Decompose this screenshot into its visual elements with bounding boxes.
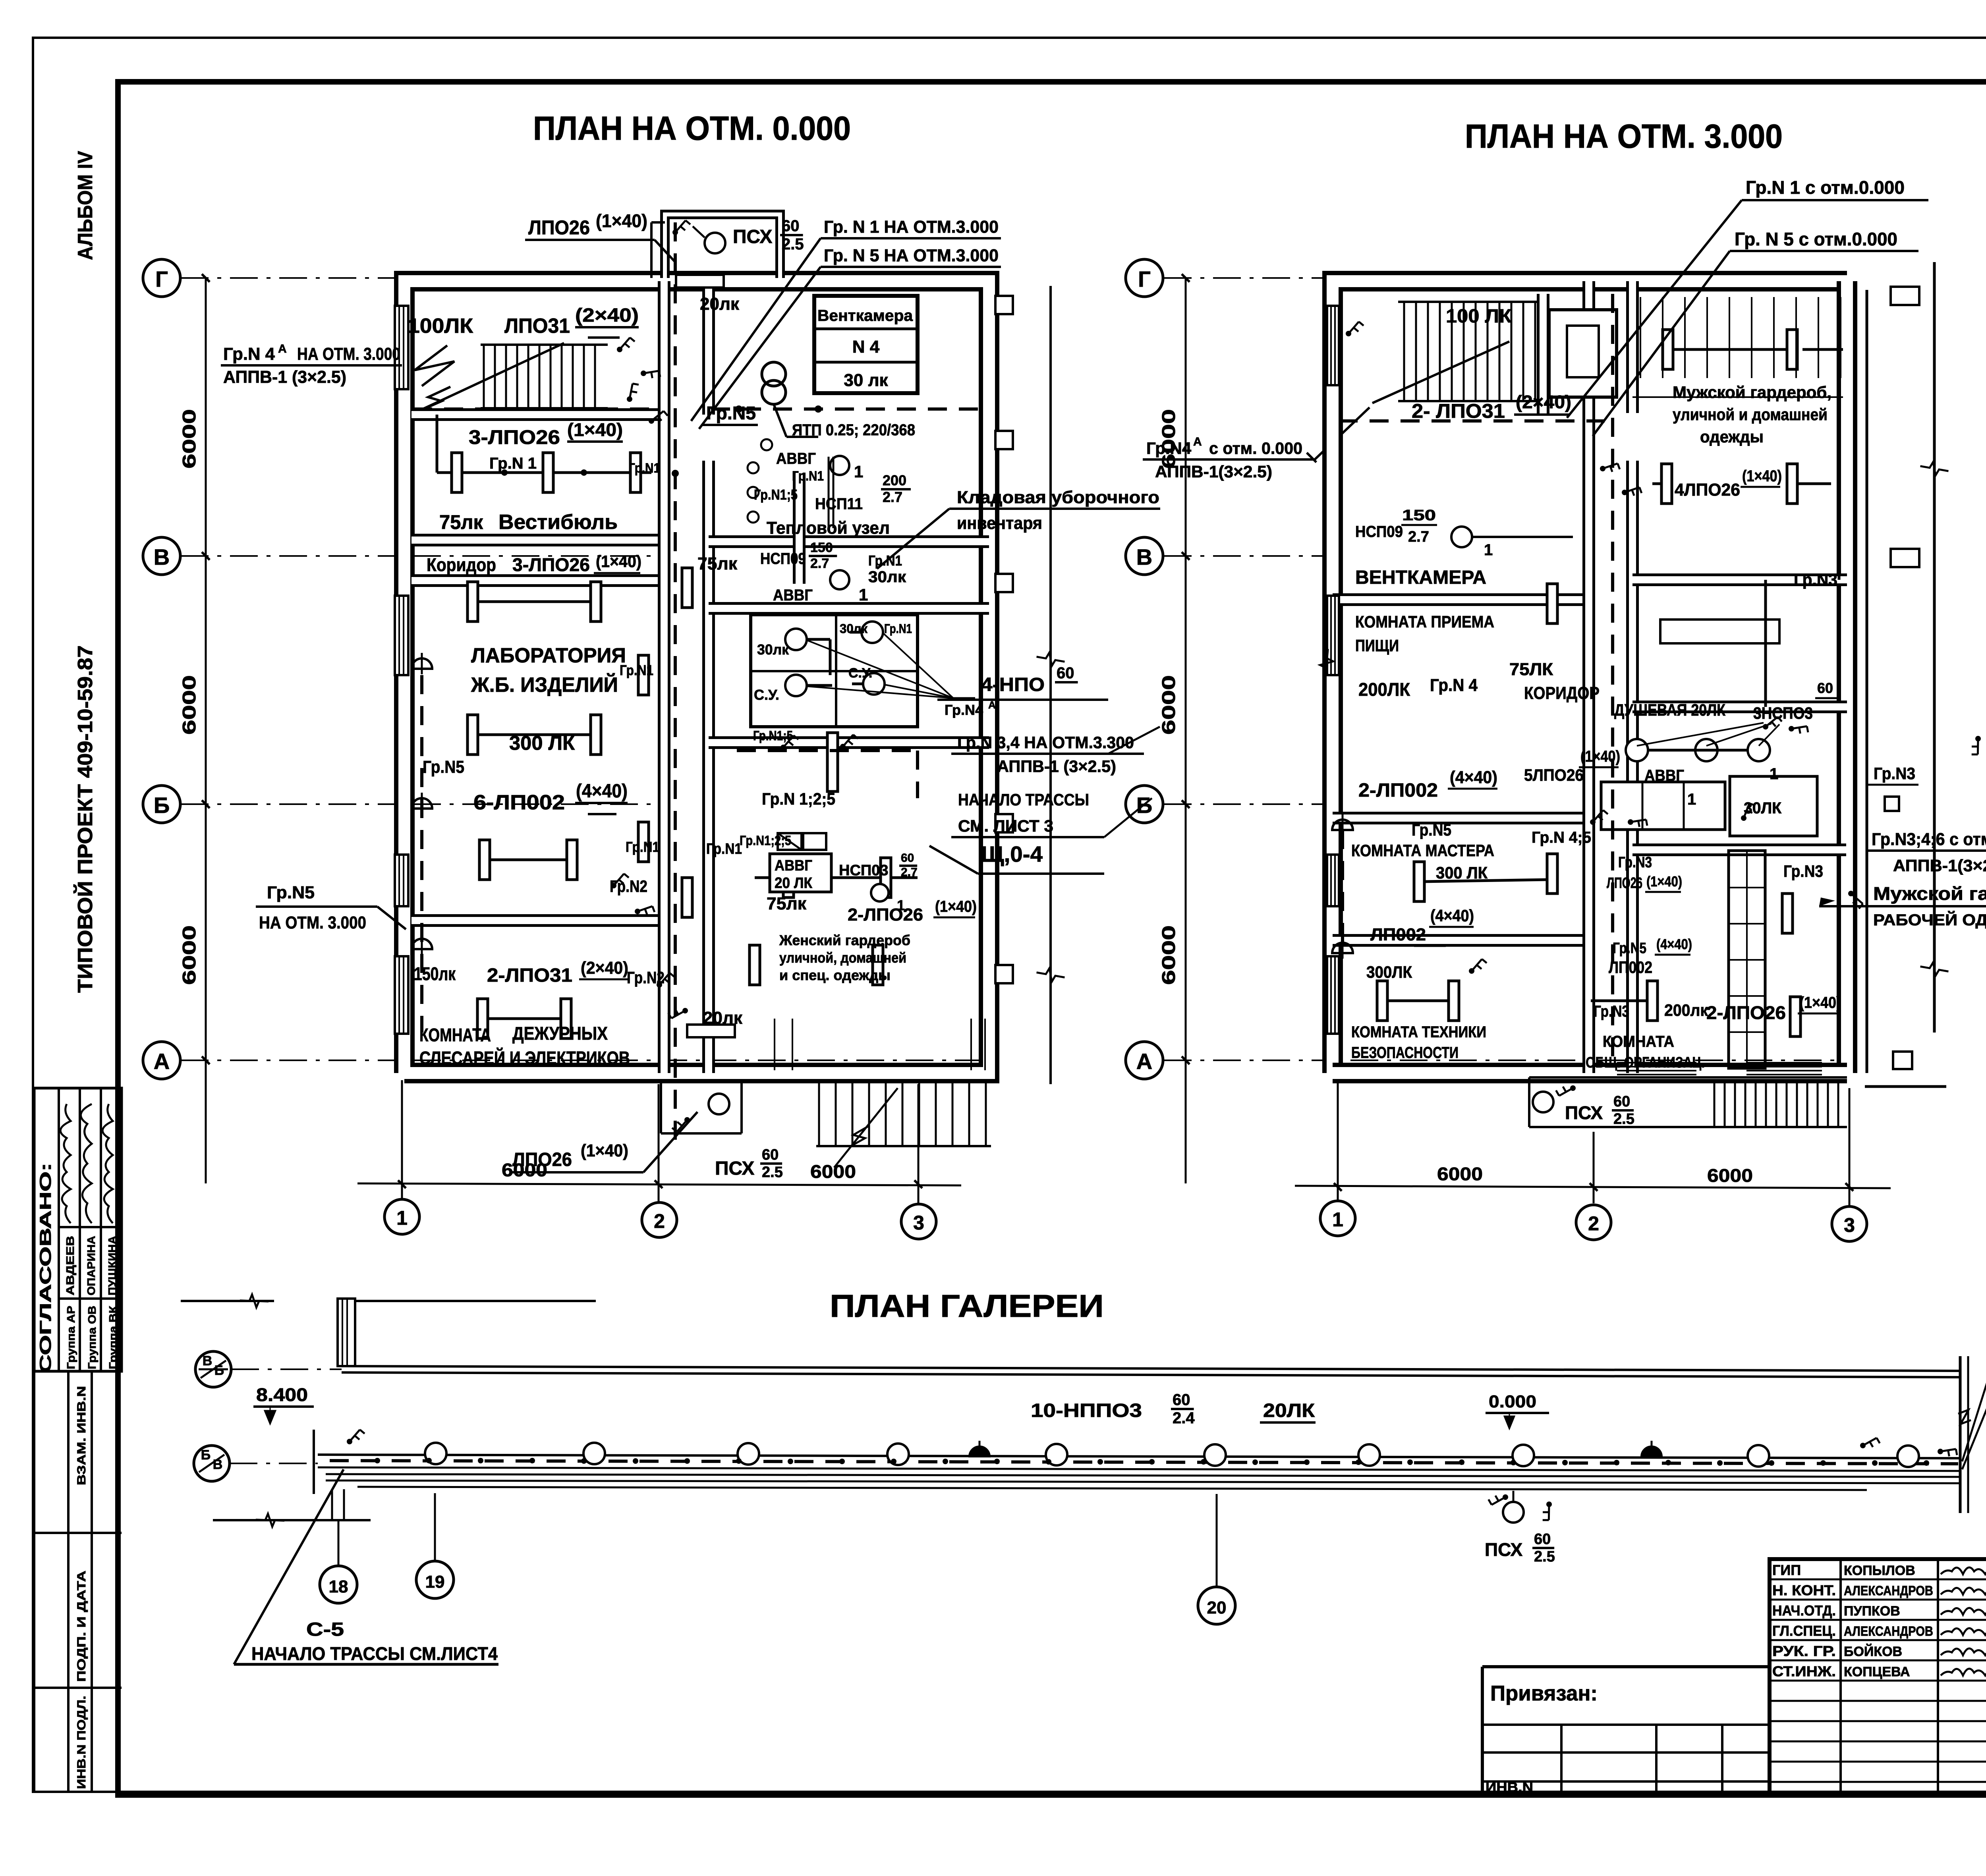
svg-text:Г: Г <box>155 266 168 291</box>
left column: sign-off table <box>34 1088 122 1371</box>
left plan: yatp transformer <box>762 362 786 386</box>
svg-text:19: 19 <box>425 1572 445 1592</box>
right plan: A axis through building <box>1350 1060 1843 1061</box>
svg-text:ГЛ.СПЕЦ.: ГЛ.СПЕЦ. <box>1772 1623 1836 1639</box>
svg-text:(4×40): (4×40) <box>576 781 628 802</box>
svg-text:НАЧАЛО ТРАССЫ: НАЧАЛО ТРАССЫ <box>958 790 1089 809</box>
svg-text:АВДЕЕВ: АВДЕЕВ <box>64 1236 76 1295</box>
svg-text:В: В <box>203 1353 213 1368</box>
svg-text:Гр.N3: Гр.N3 <box>1794 570 1837 589</box>
svg-text:3НСПО3: 3НСПО3 <box>1753 704 1813 722</box>
svg-text:БЕЗОПАСНОСТИ: БЕЗОПАСНОСТИ <box>1351 1044 1459 1062</box>
svg-text:3-ЛПО26: 3-ЛПО26 <box>512 554 590 575</box>
gallery lamps <box>425 1443 446 1464</box>
left plan: neighbor building wall <box>1049 286 1052 1084</box>
svg-text:Гр.N3: Гр.N3 <box>1783 862 1823 880</box>
gallery left structure <box>181 1300 274 1302</box>
left plan: east wall pilasters <box>995 296 1013 314</box>
svg-text:2.5: 2.5 <box>782 235 804 253</box>
svg-text:2.5: 2.5 <box>1613 1111 1634 1127</box>
svg-text:2-ЛПО31: 2-ЛПО31 <box>487 965 572 986</box>
right plan: neighbor building wall <box>1933 262 1936 1033</box>
svg-text:1: 1 <box>859 585 868 604</box>
svg-text:А: А <box>988 699 996 711</box>
svg-text:КОМНАТА: КОМНАТА <box>1603 1033 1674 1050</box>
gallery dots on wire <box>375 1458 380 1463</box>
svg-text:4-НПО: 4-НПО <box>981 674 1045 695</box>
svg-text:ЛП002: ЛП002 <box>1609 958 1652 977</box>
svg-text:60: 60 <box>901 851 914 865</box>
svg-text:20лк: 20лк <box>703 1008 743 1028</box>
gallery axis lines <box>231 1368 342 1370</box>
left plan: west wall pilasters <box>395 306 408 389</box>
right plan callouts right <box>1885 797 1899 811</box>
svg-text:(4×40): (4×40) <box>1430 906 1474 925</box>
svg-text:СМ. ЛИСТ 3: СМ. ЛИСТ 3 <box>958 816 1053 835</box>
svg-text:Гр.N3;4;6 с отм.0.000: Гр.N3;4;6 с отм.0.000 <box>1872 830 1986 849</box>
svg-text:(1×40): (1×40) <box>581 1141 628 1160</box>
svg-text:Гр.N 1 с отм.0.000: Гр.N 1 с отм.0.000 <box>1746 177 1905 198</box>
svg-text:Гр. N 1 НА ОТМ.3.000: Гр. N 1 НА ОТМ.3.000 <box>824 217 999 237</box>
right plan bottom porch <box>1529 1076 1847 1079</box>
svg-text:А: А <box>154 1049 170 1074</box>
svg-text:НА ОТМ. 3.000: НА ОТМ. 3.000 <box>259 913 366 932</box>
svg-text:КОМНАТА: КОМНАТА <box>419 1025 491 1045</box>
svg-text:Гр.N 4;5: Гр.N 4;5 <box>1532 829 1591 846</box>
svg-text:одежды: одежды <box>1700 427 1764 446</box>
svg-text:300 ЛК: 300 ЛК <box>1436 863 1488 882</box>
svg-text:инвентаря: инвентаря <box>957 513 1042 533</box>
svg-text:Гр.N1: Гр.N1 <box>706 841 742 857</box>
svg-text:Г: Г <box>1138 266 1151 291</box>
right plan: vertical dim line <box>1185 278 1187 1183</box>
svg-text:Гр.N 4: Гр.N 4 <box>223 344 275 364</box>
right plan: neighbor pilasters <box>1891 287 1919 305</box>
svg-text:6000: 6000 <box>1158 925 1179 985</box>
svg-text:Венткамера: Венткамера <box>817 307 913 324</box>
svg-text:ПИЩИ: ПИЩИ <box>1355 636 1399 655</box>
svg-text:6000: 6000 <box>179 925 199 985</box>
svg-text:1: 1 <box>1332 1208 1343 1231</box>
svg-text:Группа АР: Группа АР <box>65 1306 77 1369</box>
left plan: stairs <box>483 345 485 408</box>
svg-text:(1×40): (1×40) <box>935 898 977 915</box>
left plan: corridor fixtures <box>638 655 649 695</box>
svg-text:Гр.N1;5: Гр.N1;5 <box>753 728 793 743</box>
gallery bottom lamp <box>1503 1502 1524 1523</box>
svg-text:30лк: 30лк <box>840 621 868 636</box>
svg-text:300 ЛК: 300 ЛК <box>509 732 575 754</box>
left plan: interior walls right half <box>709 535 989 548</box>
svg-text:(1×40): (1×40) <box>1742 467 1782 485</box>
svg-text:150: 150 <box>810 540 833 555</box>
svg-text:3: 3 <box>1844 1214 1855 1236</box>
svg-text:ПЛАН НА ОТМ. 0.000: ПЛАН НА ОТМ. 0.000 <box>533 110 851 147</box>
svg-text:(2×40): (2×40) <box>575 305 639 326</box>
svg-text:Гр.N5: Гр.N5 <box>423 757 464 777</box>
svg-text:КОПЦЕВА: КОПЦЕВА <box>1844 1664 1910 1679</box>
svg-text:200ЛК: 200ЛК <box>1358 679 1410 700</box>
svg-text:ТИПОВОЙ ПРОЕКТ 409-10-59.87: ТИПОВОЙ ПРОЕКТ 409-10-59.87 <box>73 645 97 993</box>
svg-text:2.5: 2.5 <box>1534 1548 1555 1565</box>
left column: inv boxes <box>34 1370 122 1373</box>
left plan: interior walls left half <box>411 408 663 421</box>
left plan: bottom porch lamp <box>709 1094 729 1114</box>
svg-text:СТ.ИНЖ.: СТ.ИНЖ. <box>1772 1663 1836 1679</box>
svg-text:(4×40): (4×40) <box>1450 768 1497 787</box>
svg-text:Мужской гардероб: Мужской гардероб <box>1873 883 1986 904</box>
left plan: wall right of corridor <box>793 473 806 584</box>
svg-text:А: А <box>278 342 287 355</box>
svg-text:2- ЛПО31: 2- ЛПО31 <box>1412 400 1505 422</box>
svg-text:2.7: 2.7 <box>1408 529 1429 545</box>
left plan: bottom porch lines <box>660 1080 662 1133</box>
svg-text:200: 200 <box>883 472 906 488</box>
svg-text:20лк: 20лк <box>700 294 740 314</box>
svg-text:ЛАБОРАТОРИЯ: ЛАБОРАТОРИЯ <box>471 644 626 667</box>
svg-text:0.000: 0.000 <box>1489 1392 1536 1411</box>
svg-text:ОПАРИНА: ОПАРИНА <box>85 1236 97 1295</box>
svg-text:1: 1 <box>1687 791 1696 808</box>
left plan: riser dashed line <box>674 222 677 1148</box>
svg-text:Гр. N 5 НА ОТМ.3.000: Гр. N 5 НА ОТМ.3.000 <box>824 246 999 265</box>
frame bottom segment <box>118 1792 1986 1798</box>
svg-text:А: А <box>1193 435 1202 448</box>
left plan: central corridor walls <box>658 281 670 1073</box>
svg-text:ВЕНТКАМЕРА: ВЕНТКАМЕРА <box>1355 567 1486 588</box>
left plan: gdrb fixtures <box>755 876 918 879</box>
svg-text:Гр.N5: Гр.N5 <box>1613 940 1646 957</box>
svg-text:Гр.N4: Гр.N4 <box>945 702 983 718</box>
svg-text:(1×40): (1×40) <box>596 552 641 571</box>
svg-text:Гр.N1: Гр.N1 <box>628 461 660 476</box>
svg-text:2.7: 2.7 <box>883 489 902 505</box>
svg-text:60: 60 <box>1173 1391 1190 1409</box>
right plan: wardrobe locker grid <box>1640 297 1641 378</box>
svg-text:С-5: С-5 <box>306 1619 344 1640</box>
svg-text:В: В <box>1136 544 1152 569</box>
right plan hatch bands in south wall <box>1617 1062 1696 1063</box>
left plan: gdrb locker verticals <box>774 1019 775 1070</box>
svg-text:РАБОЧЕЙ ОДЕЖДЫ: РАБОЧЕЙ ОДЕЖДЫ <box>1873 911 1986 929</box>
left plan: bottom dim line and axis circles 1 2 3 <box>401 1080 403 1199</box>
svg-text:Гр.N1: Гр.N1 <box>884 621 912 636</box>
svg-text:АЛЕКСАНДРОВ: АЛЕКСАНДРОВ <box>1844 1624 1933 1639</box>
svg-text:АЛЕКСАНДРОВ: АЛЕКСАНДРОВ <box>1844 1583 1933 1598</box>
svg-text:АВВГ: АВВГ <box>776 450 816 467</box>
svg-text:КОМНАТА ТЕХНИКИ: КОМНАТА ТЕХНИКИ <box>1351 1023 1486 1041</box>
svg-text:2-ЛПО26: 2-ЛПО26 <box>848 905 923 924</box>
right plan: riser dashed <box>1611 294 1614 1068</box>
svg-text:20ЛК: 20ЛК <box>1263 1400 1315 1421</box>
svg-text:Привязан:: Привязан: <box>1490 1681 1598 1705</box>
svg-text:Кладовая уборочного: Кладовая уборочного <box>957 488 1159 507</box>
svg-text:N 4: N 4 <box>852 337 880 357</box>
left plan: right half fixtures <box>830 456 849 475</box>
svg-text:2.7: 2.7 <box>810 556 829 571</box>
right plan: axis row lines <box>1164 277 1327 279</box>
right plan: top-left stairs <box>1403 302 1405 401</box>
svg-text:ПЛАН ГАЛЕРЕИ: ПЛАН ГАЛЕРЕИ <box>830 1288 1104 1324</box>
svg-text:Гр.N1: Гр.N1 <box>620 662 653 678</box>
svg-text:ДЕЖУРНЫХ: ДЕЖУРНЫХ <box>512 1023 608 1044</box>
svg-text:Коридор: Коридор <box>427 554 496 575</box>
svg-text:С.У.: С.У. <box>848 666 872 681</box>
svg-text:(4×40): (4×40) <box>1656 936 1692 952</box>
gallery top chord <box>342 1366 1960 1371</box>
svg-text:60: 60 <box>762 1146 779 1163</box>
left plan: vertical dim line <box>205 278 207 1183</box>
svg-text:АВВГ: АВВГ <box>775 857 812 874</box>
svg-text:ПОДП. И ДАТА: ПОДП. И ДАТА <box>75 1571 88 1682</box>
svg-text:Гр.N1: Гр.N1 <box>626 839 659 855</box>
svg-text:150лк: 150лк <box>414 963 456 984</box>
svg-text:Гр.N 3,4 НА ОТМ.3.300: Гр.N 3,4 НА ОТМ.3.300 <box>957 733 1134 752</box>
gallery left column <box>338 1299 355 1366</box>
svg-text:Гр.N5: Гр.N5 <box>1412 820 1451 839</box>
svg-text:(1×40): (1×40) <box>1799 994 1841 1011</box>
svg-text:Б: Б <box>214 1363 224 1378</box>
left plan: porch lamp <box>705 233 725 253</box>
svg-text:АППВ-1(3×2.5): АППВ-1(3×2.5) <box>1893 856 1986 875</box>
svg-text:Гр. N 5 с отм.0.000: Гр. N 5 с отм.0.000 <box>1735 229 1897 249</box>
svg-text:Н. КОНТ.: Н. КОНТ. <box>1772 1582 1836 1598</box>
left plan: axis row lines <box>181 277 397 279</box>
left plan: gr4a dashed line <box>413 407 659 411</box>
svg-text:НСП03: НСП03 <box>839 862 888 879</box>
svg-text:6-ЛП002: 6-ЛП002 <box>473 791 565 814</box>
svg-text:НА ОТМ. 3.000: НА ОТМ. 3.000 <box>297 344 400 364</box>
left plan: ventkamera box <box>814 296 918 393</box>
svg-text:ЯТП 0.25; 220/368: ЯТП 0.25; 220/368 <box>792 421 915 439</box>
svg-text:НАЧАЛО ТРАССЫ СМ.ЛИСТ4: НАЧАЛО ТРАССЫ СМ.ЛИСТ4 <box>251 1643 498 1664</box>
svg-text:ЛПО31: ЛПО31 <box>504 315 570 338</box>
title block: privyazan box <box>1482 1665 1770 1668</box>
svg-text:Вестибюль: Вестибюль <box>498 511 618 534</box>
svg-text:1: 1 <box>396 1207 408 1229</box>
svg-text:В: В <box>154 544 170 569</box>
svg-text:Группа ВК: Группа ВК <box>107 1305 119 1369</box>
svg-text:(1×40): (1×40) <box>1580 748 1620 765</box>
svg-text:Женский гардероб: Женский гардероб <box>779 932 910 948</box>
svg-text:Б: Б <box>154 793 170 818</box>
svg-text:Ж.Б. ИЗДЕЛИЙ: Ж.Б. ИЗДЕЛИЙ <box>471 673 618 697</box>
left plan: group wires left half <box>437 471 651 474</box>
svg-text:6000: 6000 <box>1158 675 1179 735</box>
svg-text:(2×40): (2×40) <box>581 958 628 978</box>
svg-text:СОГЛАСОВАНО:: СОГЛАСОВАНО: <box>37 1163 54 1373</box>
right plan: dushevaya boxes <box>1601 782 1725 830</box>
gallery switches <box>347 1430 365 1444</box>
gallery axis circles <box>195 1351 231 1387</box>
svg-text:АВВГ: АВВГ <box>773 587 813 604</box>
svg-text:75лк: 75лк <box>697 554 738 573</box>
svg-text:ЛПО26: ЛПО26 <box>528 216 590 239</box>
svg-text:Б: Б <box>1136 793 1152 818</box>
right plan: exterior walls <box>1333 281 1847 1073</box>
svg-text:150: 150 <box>1402 507 1436 524</box>
svg-text:АППВ-1 (3×2.5): АППВ-1 (3×2.5) <box>997 757 1116 776</box>
svg-text:АЛЬБОМ IV: АЛЬБОМ IV <box>74 151 97 260</box>
svg-text:АППВ-1 (3×2.5): АППВ-1 (3×2.5) <box>223 367 346 387</box>
svg-text:60: 60 <box>782 217 800 235</box>
gallery right end wall <box>1959 1356 1962 1513</box>
svg-text:уличной, домашней: уличной, домашней <box>779 950 906 966</box>
left plan: corridor tall bar <box>827 733 838 791</box>
svg-text:Гр.N2: Гр.N2 <box>610 877 647 896</box>
svg-text:ПУПКОВ: ПУПКОВ <box>1844 1604 1900 1619</box>
svg-text:Группа ОВ: Группа ОВ <box>86 1306 98 1369</box>
svg-text:ПЛАН НА ОТМ. 3.000: ПЛАН НА ОТМ. 3.000 <box>1465 118 1783 155</box>
svg-text:Гр.N5: Гр.N5 <box>706 403 756 423</box>
svg-text:2.4: 2.4 <box>1173 1409 1195 1427</box>
svg-text:(1×40): (1×40) <box>1646 873 1682 890</box>
svg-text:(1×40): (1×40) <box>596 210 647 231</box>
right plan: interior walls <box>1333 593 1589 606</box>
svg-text:ИНВ.N ПОДЛ.: ИНВ.N ПОДЛ. <box>75 1696 88 1789</box>
svg-text:Щ,0-4: Щ,0-4 <box>981 841 1043 867</box>
svg-text:300ЛК: 300ЛК <box>1366 963 1412 981</box>
svg-text:Гр.N1;2;5: Гр.N1;2;5 <box>740 833 791 848</box>
left plan: right half dashed circuits <box>711 407 989 411</box>
svg-text:ЛПО26: ЛПО26 <box>1607 875 1642 892</box>
svg-text:75ЛК: 75ЛК <box>1509 660 1553 679</box>
left plan: top porch <box>665 214 780 278</box>
svg-text:2.7: 2.7 <box>901 866 918 879</box>
left plan: switches cluster top <box>617 338 635 352</box>
svg-text:60: 60 <box>1613 1093 1630 1110</box>
right plan: garderob fixtures row <box>1663 330 1673 369</box>
svg-text:ЛПО26: ЛПО26 <box>512 1149 572 1170</box>
svg-text:2: 2 <box>654 1210 665 1232</box>
svg-text:Мужской гардероб,: Мужской гардероб, <box>1673 383 1831 401</box>
svg-text:НСП09: НСП09 <box>760 550 806 567</box>
svg-text:КОМНАТА ПРИЕМА: КОМНАТА ПРИЕМА <box>1355 612 1494 631</box>
svg-text:КОПЫЛОВ: КОПЫЛОВ <box>1844 1563 1915 1578</box>
svg-text:РУК. ГР.: РУК. ГР. <box>1772 1643 1836 1659</box>
svg-text:Гр.N 4: Гр.N 4 <box>1430 676 1478 695</box>
svg-text:Гр.N3: Гр.N3 <box>1618 854 1652 871</box>
svg-text:8.400: 8.400 <box>256 1384 308 1405</box>
svg-text:1: 1 <box>854 462 863 481</box>
left plan: corridor junction circles <box>748 462 759 473</box>
svg-text:5ЛПО26: 5ЛПО26 <box>1524 766 1584 784</box>
svg-text:НСП09: НСП09 <box>1355 523 1403 540</box>
svg-text:уличной и домашней: уличной и домашней <box>1673 405 1828 424</box>
svg-text:1: 1 <box>1484 541 1493 559</box>
svg-text:Гр.N2: Гр.N2 <box>627 968 665 987</box>
right plan: stairwell core <box>1537 294 1549 415</box>
svg-text:НСП11: НСП11 <box>815 495 863 513</box>
svg-text:3-ЛПО26: 3-ЛПО26 <box>469 426 560 448</box>
svg-text:КОРИДОР: КОРИДОР <box>1524 683 1600 703</box>
svg-text:6000: 6000 <box>1437 1164 1483 1184</box>
right plan: axis circles <box>1126 259 1163 297</box>
svg-text:60: 60 <box>1817 680 1833 696</box>
svg-text:6000: 6000 <box>179 675 199 735</box>
svg-text:В: В <box>213 1457 223 1472</box>
left plan: bottom stair hatch <box>818 1082 820 1145</box>
svg-text:30лк: 30лк <box>868 568 906 586</box>
svg-text:60: 60 <box>1057 664 1074 682</box>
svg-text:4ЛПО26: 4ЛПО26 <box>1675 480 1740 500</box>
svg-text:10-НППО3: 10-НППО3 <box>1031 1400 1142 1421</box>
svg-text:1: 1 <box>1770 765 1778 783</box>
right plan: wires misc <box>1341 830 1344 953</box>
svg-text:6000: 6000 <box>179 409 199 469</box>
svg-text:ЛП002: ЛП002 <box>1370 925 1426 944</box>
svg-text:Гр.N3: Гр.N3 <box>1874 764 1915 783</box>
svg-text:ПУШКИНА: ПУШКИНА <box>106 1236 118 1295</box>
svg-text:60: 60 <box>1534 1531 1551 1548</box>
svg-text:(2×40): (2×40) <box>1516 392 1571 412</box>
svg-text:6000: 6000 <box>1707 1165 1753 1186</box>
svg-text:С.У.: С.У. <box>754 687 779 703</box>
svg-text:2.5: 2.5 <box>762 1164 783 1181</box>
svg-text:Тепловой узел: Тепловой узел <box>767 518 890 538</box>
svg-text:75лк: 75лк <box>439 511 483 533</box>
gallery wall lamps filled <box>969 1446 990 1457</box>
svg-text:18: 18 <box>329 1577 348 1596</box>
title block: signatures <box>1941 1567 1986 1574</box>
svg-text:Гр.N1: Гр.N1 <box>792 469 824 484</box>
svg-text:КОМНАТА МАСТЕРА: КОМНАТА МАСТЕРА <box>1351 841 1494 860</box>
svg-text:6000: 6000 <box>810 1161 856 1182</box>
left plan: axis circles <box>143 259 180 297</box>
svg-text:2: 2 <box>1588 1212 1599 1235</box>
svg-text:СЛЕСАРЕЙ И ЭЛЕКТРИКОВ: СЛЕСАРЕЙ И ЭЛЕКТРИКОВ <box>419 1048 630 1068</box>
svg-text:20 ЛК: 20 ЛК <box>775 875 813 892</box>
svg-text:2-ЛПО26: 2-ЛПО26 <box>1706 1002 1786 1023</box>
left plan: riser pair right of corridor <box>828 457 830 528</box>
svg-text:3: 3 <box>913 1212 924 1234</box>
signatures in sign-off table <box>60 1104 71 1223</box>
svg-text:АВВГ: АВВГ <box>1644 767 1684 784</box>
title block: signature table <box>1770 1559 1986 1795</box>
svg-text:30лк: 30лк <box>757 641 789 658</box>
svg-text:Гр.N 1: Гр.N 1 <box>489 455 537 472</box>
gallery band <box>318 1455 1960 1458</box>
svg-text:ПСХ: ПСХ <box>1565 1102 1603 1123</box>
gallery circles 18 19 20 <box>320 1566 357 1603</box>
left plan: exterior walls <box>404 281 989 1073</box>
left plan: lab wall lamps <box>411 658 432 669</box>
svg-text:30 лк: 30 лк <box>844 371 888 390</box>
svg-text:(1×40): (1×40) <box>567 419 623 440</box>
svg-text:ВЗАМ. ИНВ.N: ВЗАМ. ИНВ.N <box>75 1386 88 1485</box>
svg-text:2-ЛП002: 2-ЛП002 <box>1358 780 1438 801</box>
svg-text:БОЙКОВ: БОЙКОВ <box>1844 1644 1902 1659</box>
left plan: su fan leader lines <box>807 640 953 698</box>
svg-text:ПСХ: ПСХ <box>715 1158 754 1179</box>
svg-text:20: 20 <box>1207 1598 1227 1617</box>
svg-text:200лк: 200лк <box>1664 1001 1708 1019</box>
svg-text:Гр.N3: Гр.N3 <box>1594 1003 1629 1020</box>
right plan: fixtures <box>1451 527 1472 547</box>
small squares schetchik ShchO-4 <box>778 833 802 850</box>
svg-text:Гр.N1;5: Гр.N1;5 <box>754 486 798 503</box>
svg-text:ГИП: ГИП <box>1772 1562 1801 1578</box>
right plan: bottom dims <box>1337 1080 1339 1201</box>
svg-text:Гр.N5: Гр.N5 <box>267 883 315 902</box>
svg-text:ДУШЕВАЯ 20ЛК: ДУШЕВАЯ 20ЛК <box>1614 701 1725 719</box>
svg-text:ПСХ: ПСХ <box>1485 1539 1523 1560</box>
svg-text:30ЛК: 30ЛК <box>1744 799 1782 817</box>
right plan: east wall second line <box>1866 290 1868 1073</box>
svg-text:75лк: 75лк <box>767 894 807 913</box>
svg-text:НАЧ.ОТД.: НАЧ.ОТД. <box>1772 1602 1836 1619</box>
svg-text:Б: Б <box>201 1448 211 1463</box>
